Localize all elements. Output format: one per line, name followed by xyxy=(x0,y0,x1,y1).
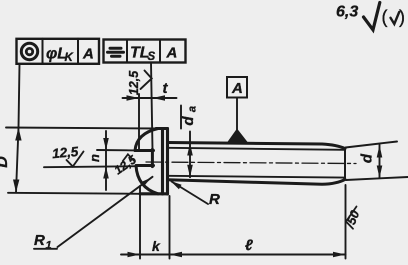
6,3 check mark xyxy=(364,3,380,30)
label d_a rotated xyxy=(180,106,199,126)
R leader xyxy=(172,182,209,205)
n upper extension line xyxy=(97,149,135,151)
check of 50 xyxy=(346,207,357,229)
label l xyxy=(245,237,253,254)
roughness 50 at shaft end xyxy=(344,208,362,226)
shaft top outline xyxy=(168,143,346,149)
dimension d_a line xyxy=(189,132,191,178)
slot bottom xyxy=(151,149,154,166)
label k xyxy=(152,238,161,254)
d_a arrow up xyxy=(187,143,193,156)
label d rotated xyxy=(359,153,376,163)
D arrow up xyxy=(15,128,21,141)
label T L_S xyxy=(130,45,156,64)
check of left 12,5 xyxy=(67,152,84,167)
shaft bottom outline xyxy=(168,179,346,184)
svg-text:d: d xyxy=(359,153,376,163)
svg-text:A: A xyxy=(231,80,243,97)
datum filled triangle xyxy=(227,129,249,144)
svg-text:S: S xyxy=(148,51,156,63)
head crown upper arc xyxy=(135,129,158,151)
label R with leader xyxy=(209,191,220,208)
thread top thin line xyxy=(168,148,345,150)
head bottom flat xyxy=(140,192,168,195)
svg-text:R: R xyxy=(209,191,220,208)
label phi L_K xyxy=(46,46,74,65)
centerline xyxy=(146,162,356,164)
k arrow right-pointing xyxy=(128,252,141,258)
head bearing face xyxy=(166,129,169,195)
svg-text:k: k xyxy=(152,238,161,254)
head transition line xyxy=(161,129,164,195)
d arrow down xyxy=(377,166,383,179)
svg-text:a: a xyxy=(187,106,199,112)
d_a label underline xyxy=(180,106,182,129)
D arrow down xyxy=(13,180,19,193)
slot lower line xyxy=(137,164,154,167)
svg-text:d: d xyxy=(180,116,197,126)
datum leader xyxy=(236,98,238,131)
shaft end face xyxy=(344,148,346,179)
k right / l left extension line xyxy=(169,196,171,259)
dimension D line xyxy=(16,128,19,193)
R arrowhead xyxy=(171,181,182,189)
t left extension line through head apex xyxy=(138,94,140,151)
roughness 12,5 inclined at slot xyxy=(112,152,139,177)
d arrow up xyxy=(377,145,383,158)
svg-text:(: ( xyxy=(382,7,388,27)
slot upper line xyxy=(135,149,154,152)
n arrow down xyxy=(103,138,109,150)
k left extension line xyxy=(139,186,141,259)
datum letter A in FCF1 xyxy=(82,46,94,63)
svg-text:): ) xyxy=(399,7,405,27)
dimension d extension top xyxy=(346,142,398,148)
svg-text:D: D xyxy=(0,156,11,168)
svg-text:ℓ: ℓ xyxy=(245,237,253,254)
roughness 12,5 rotated at t extension xyxy=(127,70,141,95)
svg-text:12,5: 12,5 xyxy=(51,144,79,161)
svg-text:6,3: 6,3 xyxy=(336,4,358,21)
svg-text:n: n xyxy=(87,154,102,162)
dimension n line xyxy=(105,131,107,190)
svg-text:A: A xyxy=(166,45,178,62)
dimension t line xyxy=(123,97,177,99)
tolerance frame FCF1 (concentricity phi L_K | A) xyxy=(17,39,100,64)
thread bottom thin line xyxy=(168,176,345,178)
leader from FCF1 down to D dimension xyxy=(19,64,20,128)
label D xyxy=(0,156,11,168)
label t xyxy=(163,80,169,97)
R1 arrowhead xyxy=(141,178,152,187)
leader from FCF2 / t right extension xyxy=(151,63,153,150)
check of inclined 12,5 xyxy=(123,154,134,161)
small check in parens xyxy=(391,12,400,24)
l arrow right-pointing at end xyxy=(333,252,346,258)
R1 underline xyxy=(34,248,57,250)
l right extension line xyxy=(345,185,347,259)
n lower extension line xyxy=(44,166,137,167)
datum letter A in FCF2 xyxy=(166,45,178,62)
dimension d extension bottom xyxy=(346,177,408,180)
(v) rest-of-surfaces mark xyxy=(382,7,406,27)
D top extension line xyxy=(6,128,160,129)
head top flat xyxy=(156,127,168,130)
k/l arrow left-pointing at x=169.5 xyxy=(170,252,183,258)
datum A box xyxy=(227,77,247,98)
svg-text:A: A xyxy=(82,46,94,63)
label n rotated xyxy=(87,154,102,162)
d_a arrow down xyxy=(187,165,193,178)
head crown lower arc xyxy=(136,166,158,194)
svg-text:K: K xyxy=(65,52,74,64)
n arrow up xyxy=(103,167,109,179)
t arrow left-pointing xyxy=(153,95,166,101)
tolerance frame FCF2 (symmetry T L_S | A) xyxy=(104,40,186,63)
symmetry symbol xyxy=(108,48,124,56)
concentricity symbol xyxy=(21,43,37,59)
label R1 with leader xyxy=(34,232,52,252)
check of rotated 12,5 xyxy=(141,71,152,90)
k and l dimension line xyxy=(121,254,346,256)
svg-text:R: R xyxy=(34,232,45,249)
roughness 6,3 general mark top right xyxy=(336,4,358,21)
t arrow right-pointing xyxy=(127,95,140,101)
roughness 12,5 on slot face (left) xyxy=(51,144,79,161)
D bottom extension line xyxy=(8,193,140,194)
R1 leader xyxy=(58,177,153,247)
dimension d line xyxy=(379,145,381,178)
svg-text:12,5: 12,5 xyxy=(127,70,141,95)
